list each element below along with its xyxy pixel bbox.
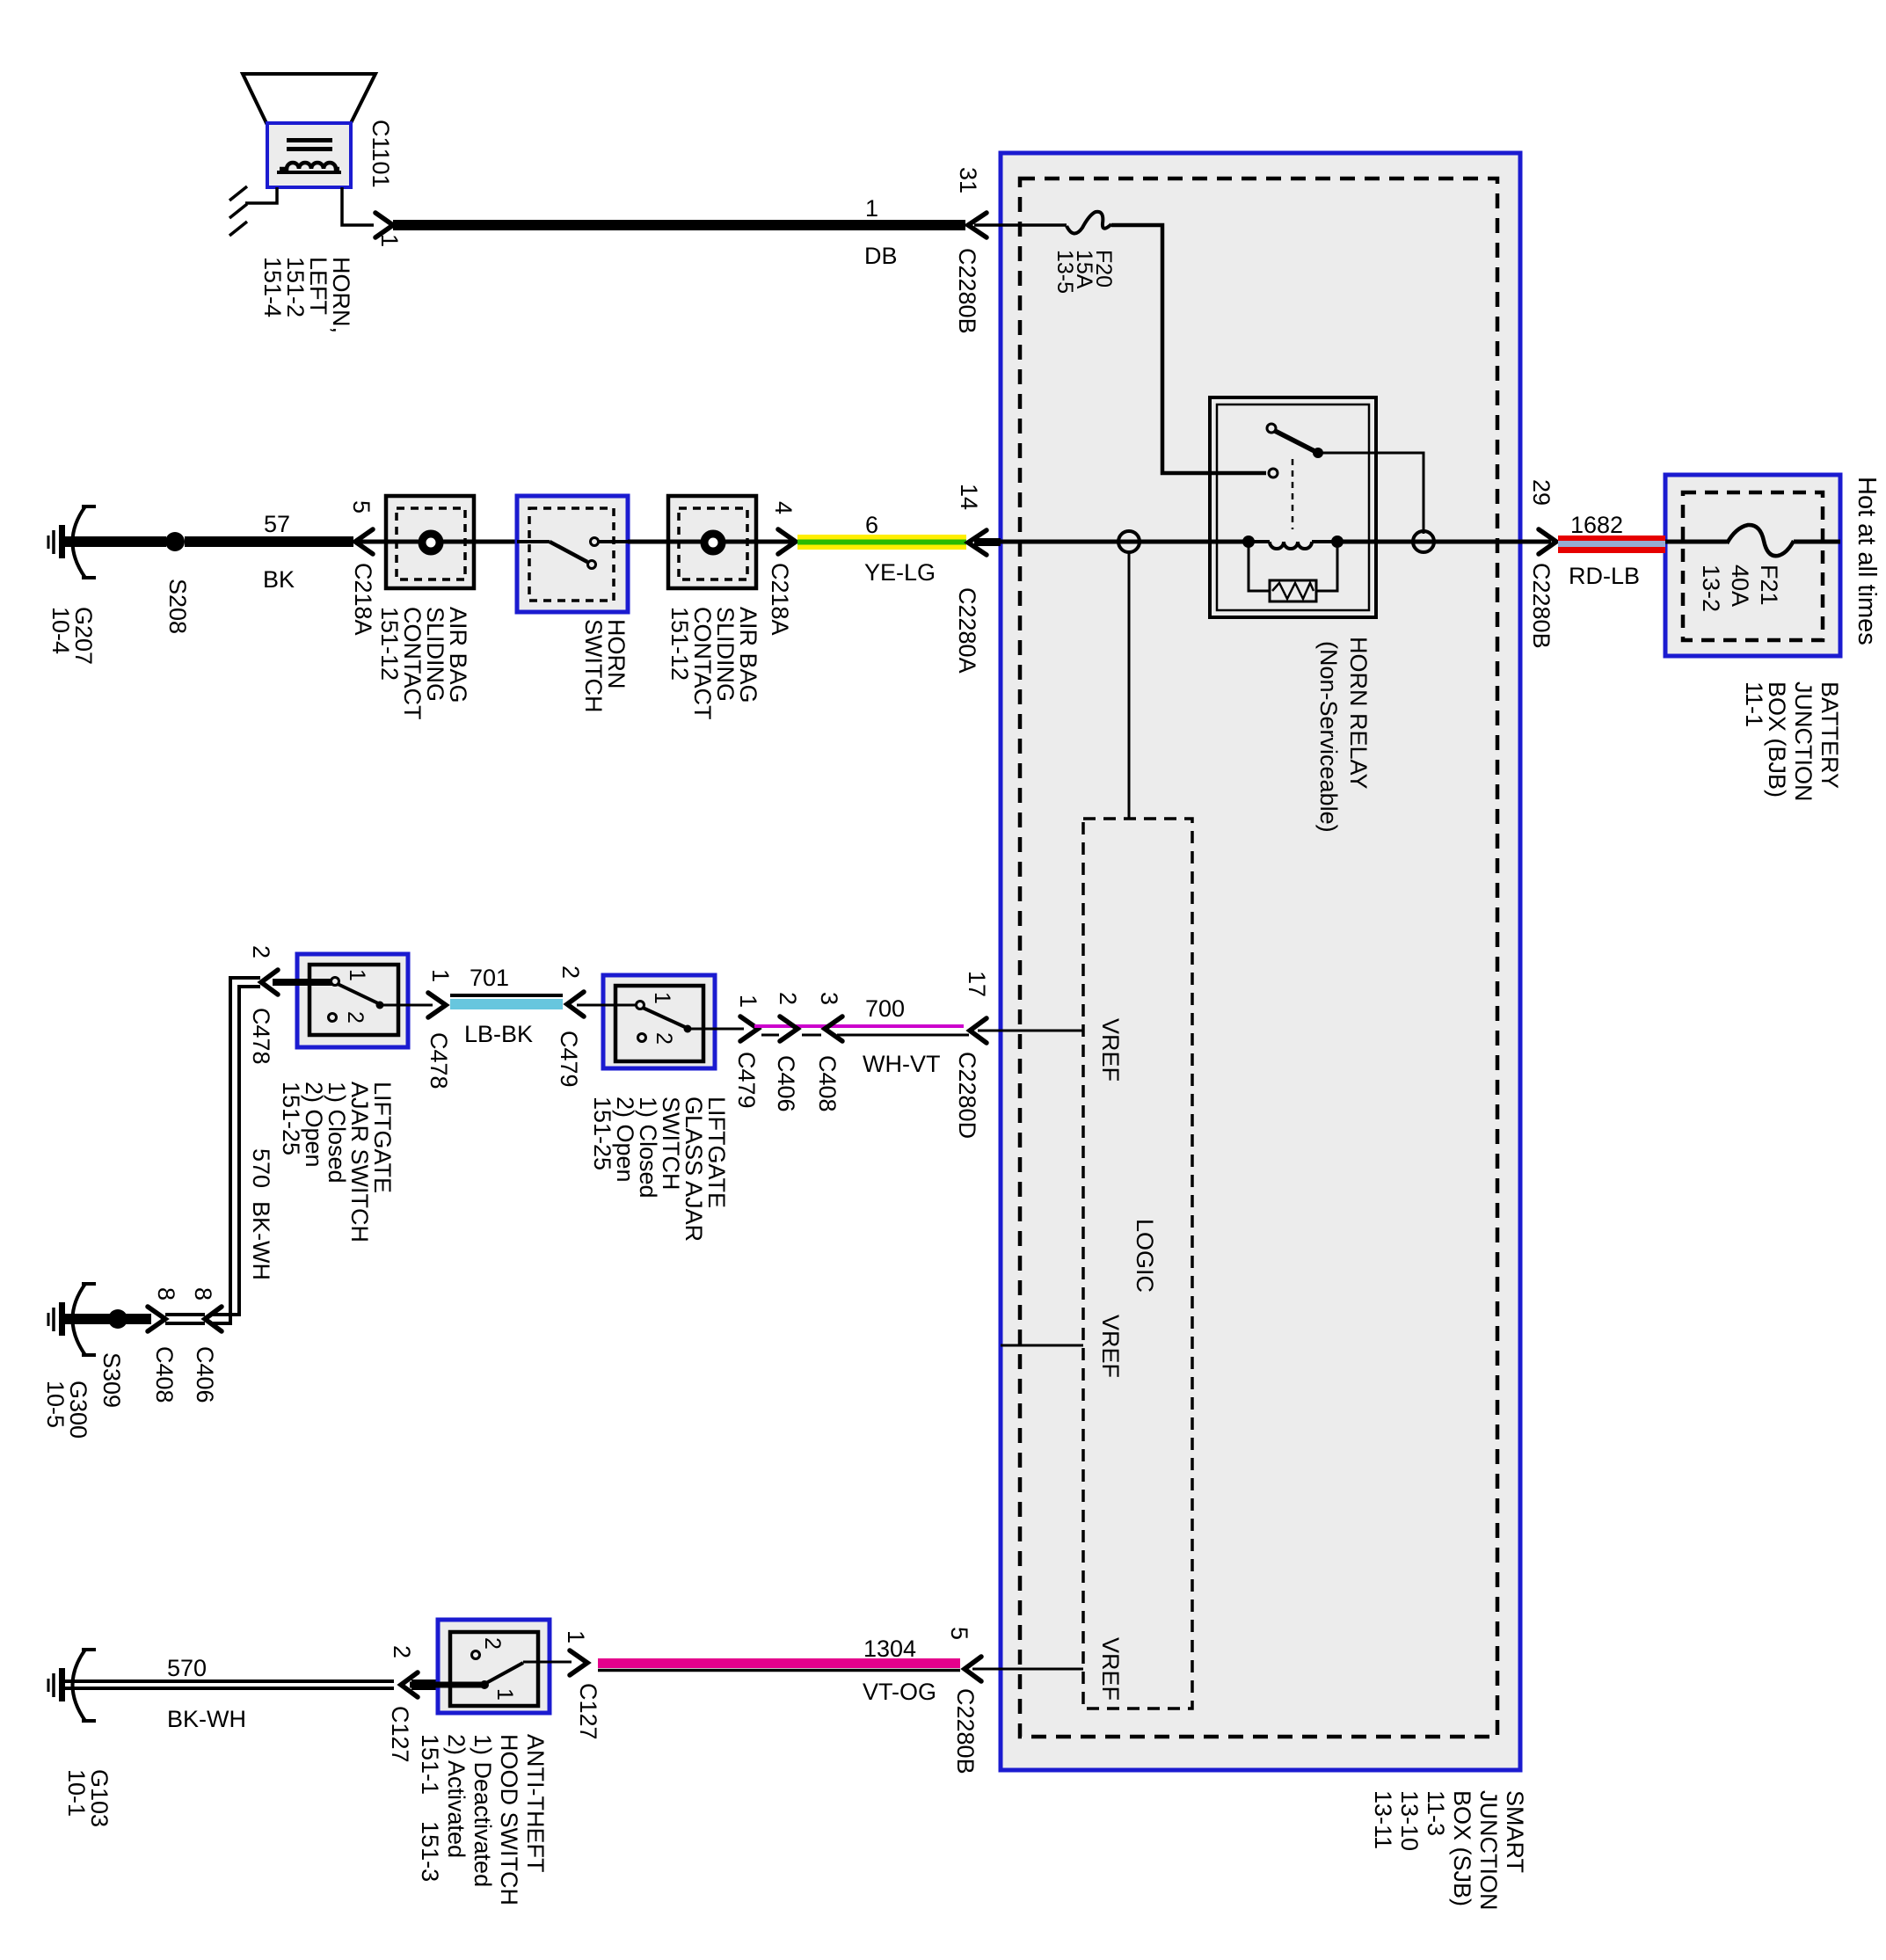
svg-text:4: 4: [770, 501, 797, 514]
liftgate glass ajar switch box: [603, 975, 715, 1068]
wire fuse F20 to relay feed corner: [1111, 225, 1266, 473]
connector arrow C127 pin 1: [570, 1650, 587, 1675]
svg-text:570 BK-WH: 570 BK-WH: [248, 1148, 274, 1280]
svg-text:151-4: 151-4: [259, 257, 286, 317]
svg-text:11-1: 11-1: [1741, 681, 1767, 727]
svg-text:17: 17: [964, 971, 990, 997]
svg-text:VREF: VREF: [1097, 1315, 1124, 1378]
svg-text:5: 5: [946, 1627, 972, 1640]
connector arrow C479 pin 2: [567, 992, 584, 1016]
svg-text:C479: C479: [556, 1031, 582, 1088]
svg-text:JUNCTION: JUNCTION: [1475, 1790, 1502, 1911]
sliding contact ring 1: [422, 534, 440, 551]
svg-text:151-1 151-3: 151-1 151-3: [417, 1734, 443, 1882]
svg-text:5: 5: [348, 500, 375, 514]
svg-text:10-1: 10-1: [63, 1769, 90, 1817]
svg-text:1: 1: [345, 969, 369, 981]
svg-text:HORN RELAY: HORN RELAY: [1345, 637, 1372, 790]
fuse F21 element: [1727, 525, 1794, 556]
svg-text:C408: C408: [151, 1346, 178, 1403]
svg-text:C127: C127: [387, 1706, 413, 1763]
connector arrow C478 pin 1: [428, 993, 446, 1017]
svg-text:2: 2: [343, 1011, 368, 1024]
connector arrow C1101 pin 1: [375, 213, 393, 237]
svg-text:BATTERY: BATTERY: [1817, 681, 1843, 789]
horn C1101 speaker cone: [243, 74, 375, 123]
svg-text:2: 2: [389, 1645, 415, 1658]
relay coil: [1249, 540, 1337, 543]
battery junction box BJB body: [1665, 475, 1840, 656]
svg-text:1: 1: [563, 1630, 589, 1643]
svg-text:13-11: 13-11: [1370, 1790, 1396, 1849]
svg-text:C218A: C218A: [350, 563, 376, 636]
vref tap ring (right): [1413, 531, 1434, 552]
vref tap ring (left): [1118, 531, 1140, 552]
smart junction box SJB body: [1001, 153, 1520, 1770]
wire VREF feed 2: [1001, 1344, 1083, 1347]
wire 700 WH-VT: [837, 1034, 969, 1037]
wire pin 5 to LOGIC: [972, 1668, 1083, 1671]
svg-text:10-4: 10-4: [47, 607, 74, 654]
relay fixed feed contact: [1269, 469, 1278, 477]
wire horn left pin to ground: [245, 187, 277, 203]
horn coil: [280, 163, 339, 169]
wire 570 BK-WH corner run (outer): [211, 978, 260, 1323]
wire arrow into hood switch: [411, 1681, 450, 1688]
svg-text:S208: S208: [164, 579, 191, 634]
svg-text:2: 2: [480, 1637, 505, 1650]
svg-text:1: 1: [376, 234, 403, 247]
svg-text:BK: BK: [263, 566, 295, 593]
svg-text:BK-WH: BK-WH: [167, 1706, 246, 1732]
sliding contact ring 2: [704, 534, 722, 551]
relay coil junction dots: [1242, 536, 1255, 548]
anti-theft hood switch box: [438, 1620, 550, 1713]
connector arrow C406 pin 2: [780, 1016, 797, 1041]
svg-text:701: 701: [470, 965, 509, 991]
svg-text:C127: C127: [575, 1683, 601, 1740]
svg-text:1: 1: [865, 195, 878, 222]
svg-text:C2280B: C2280B: [952, 1688, 979, 1774]
ground (horn) hatch symbol: [229, 186, 247, 236]
relay actuator dashed link: [1292, 459, 1294, 529]
liftgate ajar switch box: [297, 954, 408, 1047]
wire horn right pin: [342, 187, 374, 225]
wire 57 BK splice to C218A: [185, 536, 353, 547]
connector arrow C2280B pin 5: [965, 1657, 981, 1681]
svg-text:C406: C406: [192, 1346, 218, 1403]
svg-text:VREF: VREF: [1097, 1018, 1124, 1082]
connector arrow C218A pin 5: [355, 529, 373, 554]
svg-text:C2280D: C2280D: [954, 1052, 980, 1139]
air bag sliding contact box 1: [386, 496, 474, 588]
connector arrow C127 pin 2: [401, 1672, 418, 1697]
svg-text:40A: 40A: [1727, 565, 1753, 607]
svg-text:2) Activated: 2) Activated: [443, 1734, 470, 1858]
relay switch arm: [1275, 431, 1316, 452]
svg-text:DB: DB: [864, 243, 898, 269]
wire 570 BK-WH corner run (inner): [211, 987, 260, 1315]
wire arrow to liftgate ajar switch: [273, 979, 334, 986]
connector arrow C2280A pin 14: [968, 530, 987, 555]
wire C127 pin 2 into hood switch: [410, 1682, 483, 1688]
svg-text:1682: 1682: [1570, 512, 1623, 538]
svg-text:S309: S309: [98, 1352, 125, 1408]
svg-text:Hot at all times: Hot at all times: [1853, 477, 1881, 645]
svg-text:C478: C478: [426, 1032, 452, 1089]
svg-text:1304: 1304: [863, 1636, 916, 1662]
BJB inner dashed boundary: [1683, 492, 1823, 640]
wire into SJB to fuse F20: [974, 223, 1067, 227]
svg-text:SMART: SMART: [1502, 1790, 1528, 1873]
wire 1 DB thick: [393, 220, 965, 230]
svg-text:29: 29: [1528, 479, 1555, 506]
svg-text:151-25: 151-25: [278, 1082, 304, 1155]
horn switch box: [517, 496, 628, 612]
LOGIC block dashed box: [1083, 819, 1192, 1709]
svg-text:LB-BK: LB-BK: [464, 1021, 533, 1047]
resistor box: [1270, 580, 1316, 601]
wire stub into SJB (row2): [974, 538, 1001, 546]
relay switch pivot: [1267, 424, 1276, 433]
connector arrow C478 pin 2: [261, 970, 278, 995]
svg-text:151-12: 151-12: [376, 607, 403, 681]
ground G103 symbol: [73, 1650, 86, 1721]
wire switch to C127 pin 1: [523, 1661, 572, 1664]
glass ajar switch contacts: [637, 1002, 644, 1009]
connector arrow C2280B pin 31: [968, 213, 987, 237]
svg-text:1: 1: [650, 992, 674, 1004]
horn switch contacts: [517, 540, 550, 543]
svg-text:RD-LB: RD-LB: [1569, 563, 1640, 589]
relay resistor branch: [1249, 542, 1337, 591]
svg-text:(Non-Serviceable): (Non-Serviceable): [1315, 641, 1342, 833]
svg-text:YE-LG: YE-LG: [864, 559, 936, 586]
svg-text:C2280B: C2280B: [1528, 563, 1555, 649]
wire ring to LOGIC box: [1128, 552, 1131, 819]
wire 6 YE-LG: [797, 535, 966, 550]
svg-text:C2280B: C2280B: [954, 248, 980, 334]
svg-text:2: 2: [775, 992, 801, 1005]
svg-text:SWITCH: SWITCH: [580, 619, 607, 712]
liftgate ajar switch contacts: [331, 978, 339, 986]
ground G300 symbol: [73, 1284, 86, 1355]
wire stub C479 to C406: [754, 1024, 964, 1028]
svg-text:2: 2: [557, 965, 584, 979]
wire pin14 into SJB: [999, 540, 1245, 544]
ground G207 symbol: [73, 506, 86, 578]
svg-text:JUNCTION: JUNCTION: [1790, 681, 1817, 802]
wire fuse F21 to BJB edge: [1794, 540, 1840, 544]
svg-text:WH-VT: WH-VT: [863, 1051, 940, 1077]
svg-text:VT-OG: VT-OG: [863, 1679, 936, 1705]
svg-text:14: 14: [956, 484, 982, 510]
svg-text:13-2: 13-2: [1698, 565, 1724, 612]
svg-text:2: 2: [652, 1032, 676, 1045]
svg-text:C479: C479: [733, 1052, 760, 1109]
wire 570 BK-WH lower arrows: [205, 1307, 222, 1331]
svg-text:8: 8: [153, 1287, 179, 1301]
svg-text:1: 1: [735, 995, 761, 1008]
wire 1304 VT-OG: [598, 1658, 960, 1668]
svg-text:151-12: 151-12: [666, 607, 693, 681]
fuse F20 element: [1067, 212, 1111, 234]
svg-text:BOX (SJB): BOX (SJB): [1449, 1790, 1475, 1906]
wire coil to ring (right): [1337, 540, 1551, 544]
svg-text:10-5: 10-5: [42, 1381, 69, 1428]
svg-text:570: 570: [167, 1655, 207, 1681]
svg-text:3: 3: [816, 992, 842, 1005]
hood switch contacts: [480, 1680, 489, 1689]
svg-text:VREF: VREF: [1097, 1637, 1124, 1701]
svg-text:HOOD SWITCH: HOOD SWITCH: [496, 1734, 522, 1905]
svg-text:13-10: 13-10: [1396, 1790, 1423, 1851]
svg-text:57: 57: [264, 511, 290, 537]
svg-text:13-5: 13-5: [1052, 250, 1077, 294]
wire through air bag contact 1: [357, 540, 517, 544]
wire between C406 and C408 (bottom): [165, 1315, 205, 1323]
wire horn switch to air bag contact 2: [628, 540, 796, 544]
splice S208: [165, 532, 185, 551]
air bag sliding contact box 2: [668, 496, 756, 588]
connector arrow C408 pin 3: [825, 1016, 842, 1041]
wire stub C406 to C408: [802, 1034, 821, 1037]
svg-text:31: 31: [955, 167, 981, 193]
connector arrow C218A pin 4: [778, 529, 796, 554]
SJB inner dashed boundary: [1020, 179, 1497, 1737]
wire switch to C479 pin 1: [691, 1028, 744, 1031]
wire BJB internal to fuse F21: [1665, 540, 1727, 544]
svg-text:1) Deactivated: 1) Deactivated: [470, 1734, 496, 1887]
svg-text:LOGIC: LOGIC: [1132, 1219, 1158, 1293]
wire pin 17 to LOGIC: [978, 1030, 1083, 1032]
svg-text:C406: C406: [773, 1055, 799, 1112]
horn membrane bars: [287, 138, 332, 142]
svg-text:11-3: 11-3: [1423, 1790, 1449, 1836]
horn C1101 body box: [267, 123, 351, 187]
svg-text:151-25: 151-25: [589, 1097, 615, 1170]
connector arrow C2280B pin 29: [1539, 529, 1556, 554]
splice S309: [108, 1309, 127, 1329]
svg-text:C478: C478: [248, 1008, 274, 1065]
svg-text:C218A: C218A: [767, 563, 793, 636]
wire 57 BK ground to splice: [65, 536, 166, 547]
horn relay box: [1210, 397, 1376, 617]
wire 701 LB-BK: [450, 994, 563, 997]
wire 570 BK-WH (bottom row): [65, 1681, 394, 1688]
wire switch to C478 pin 1: [383, 1004, 433, 1007]
connector arrow C479 pin 1: [740, 1016, 758, 1041]
svg-text:2: 2: [248, 945, 274, 958]
svg-text:C2280A: C2280A: [954, 587, 980, 674]
svg-text:1: 1: [427, 969, 454, 982]
svg-text:ANTI-THEFT: ANTI-THEFT: [522, 1734, 549, 1872]
svg-text:700: 700: [865, 995, 905, 1022]
wire to splice S309: [118, 1314, 151, 1324]
svg-text:C408: C408: [814, 1055, 841, 1112]
wire splice to ground G300: [65, 1314, 118, 1324]
wire 1682 RD-LB: [1558, 536, 1665, 553]
wire into liftgate glass ajar switch: [577, 1004, 637, 1007]
svg-text:1: 1: [492, 1688, 517, 1701]
connector arrow C408 pin 8: [148, 1307, 165, 1331]
connector arrow C2280D pin 17: [970, 1018, 987, 1043]
svg-text:8: 8: [190, 1287, 216, 1301]
svg-text:6: 6: [865, 512, 878, 538]
svg-text:F21: F21: [1756, 565, 1782, 606]
svg-text:C1101: C1101: [368, 120, 394, 188]
relay output wire to ring: [1318, 453, 1424, 534]
